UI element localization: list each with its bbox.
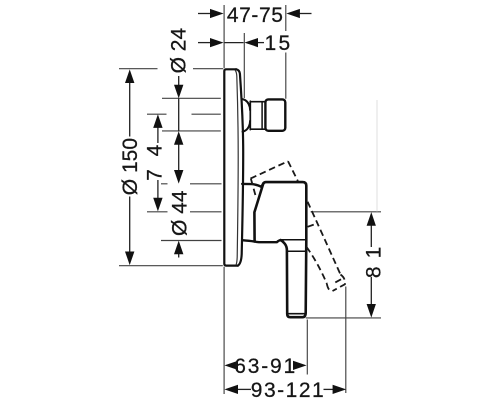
svg-text:Ø 24: Ø 24 — [168, 28, 191, 74]
svg-text:7 4: 7 4 — [144, 141, 167, 181]
svg-text:15: 15 — [265, 32, 293, 55]
svg-text:Ø 150: Ø 150 — [119, 138, 142, 195]
svg-text:81: 81 — [362, 239, 385, 278]
svg-text:Ø 44: Ø 44 — [169, 190, 192, 236]
svg-text:63-91: 63-91 — [234, 355, 297, 378]
svg-text:47-75: 47-75 — [227, 4, 284, 27]
svg-text:93-121: 93-121 — [251, 379, 325, 400]
